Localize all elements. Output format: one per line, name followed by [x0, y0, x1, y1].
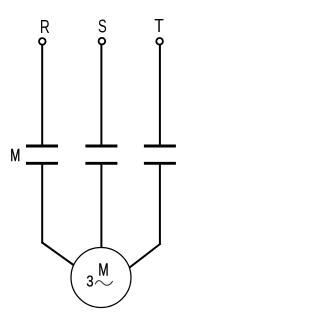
contactor contact M pole 3 (T phase) top bar: [144, 145, 176, 148]
svg-text:T: T: [154, 16, 164, 36]
contactor contact M pole 1 (R phase) bottom bar: [26, 162, 58, 165]
wire R vertical upper: [41, 45, 43, 145]
terminal S: [99, 38, 106, 45]
wire S vertical lower: [100, 162, 102, 250]
contactor contact M pole 2 (S phase) bottom bar: [85, 162, 117, 165]
wire R diagonal to motor: [41, 242, 80, 270]
wire R vertical lower: [41, 162, 43, 242]
contactor contact M pole 1 (R phase) top bar: [26, 145, 58, 148]
terminal T: [156, 38, 163, 45]
wire T vertical upper: [159, 45, 161, 145]
svg-text:M: M: [10, 145, 20, 165]
wire T vertical lower: [159, 162, 161, 244]
wire S vertical upper: [100, 45, 102, 145]
svg-text:M: M: [98, 260, 108, 280]
sine symbol (AC): [95, 281, 112, 286]
terminal R: [39, 38, 46, 45]
contactor contact M pole 3 (T phase) bottom bar: [144, 162, 176, 165]
contactor contact M pole 2 (S phase) top bar: [85, 145, 117, 148]
svg-text:S: S: [98, 17, 107, 37]
wire T diagonal to motor: [123, 244, 161, 273]
motor M1 circle: [71, 248, 131, 308]
svg-text:R: R: [40, 17, 50, 37]
svg-text:3: 3: [86, 273, 93, 290]
